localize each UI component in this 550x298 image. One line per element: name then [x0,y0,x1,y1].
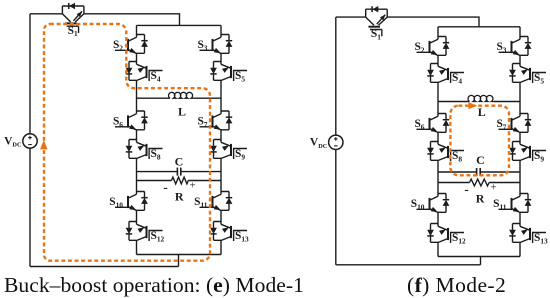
switch S1 (IGBT, horizontal) with antiparallel diode [366,6,388,41]
switch S8 (IGBT, gate right) with antiparallel diode [126,140,163,163]
wire: top bus (left circuit) [137,24,222,26]
wire: right leg lower mid segment (left circuit) [220,162,222,192]
switch S13 (IGBT, gate right) with antiparallel diode [210,222,249,245]
switch S5 (IGBT, gate right) with antiparallel diode [509,64,546,87]
wire: node to inductor (left side) [438,101,470,103]
wire: left leg mid segment upper (left circuit) [136,84,138,111]
svg-text:C: C [476,153,485,167]
wire: S3-S5 link (right circuit) [519,59,521,64]
wire: S3-S5 link (left circuit) [220,57,222,62]
wire: right leg mid segment upper (left circuit) [220,84,222,111]
wire: S2-S4 link (left circuit) [136,57,138,62]
caption: (f) Mode-2 [407,273,506,298]
switch S1 (IGBT, horizontal) with antiparallel diode [62,3,84,38]
wire: right leg mid segment upper (right circuit) [519,86,521,114]
wire: S2-S4 link (right circuit) [437,59,439,64]
switch S12 (IGBT, gate right) with antiparallel diode [427,224,466,247]
svg-text:R: R [476,191,485,205]
caption: Buck-boost operation (e) Mode-1 [4,273,304,298]
switch S9 (IGBT, gate right) with antiparallel diode [210,140,247,163]
svg-text:-: - [464,181,468,196]
wire: bottom bus center drop (left circuit) [178,255,180,267]
switch S3 (IGBT, gate left) with antiparallel diode [197,35,232,58]
wire: capacitor line (right segment) [480,171,520,173]
wire: S7-S9 link (right circuit) [519,136,521,142]
wire: S10-S12 link (left circuit) [136,214,138,222]
capacitor C [477,168,481,176]
wire: resistor line (right segment) [489,182,520,184]
wire: S6-S8 link (right circuit) [437,136,439,142]
wire: top bus stub to right leg (left circuit) [220,25,222,34]
switch S5 (IGBT, gate right) with antiparallel diode [210,62,247,85]
wire: top bus stub to left leg (right circuit) [437,27,439,37]
inductor L [468,95,494,101]
switch S13 (IGBT, gate right) with antiparallel diode [509,224,548,247]
wire: left leg to bottom bus (left circuit) [136,244,138,255]
wire: bottom bus center drop (right circuit) [480,257,482,265]
wire: bottom return wire to DC rail (left circuit) [30,266,179,268]
wire: capacitor line (left segment) [137,171,178,173]
wire: resistor line (right segment) [188,180,221,182]
resistor R (zigzag) [470,179,490,186]
wire: S11-S13 link (right circuit) [519,216,521,224]
wire: right leg to bottom bus (right circuit) [519,246,521,257]
wire: DC rail lower (left circuit) [29,148,31,266]
switch S9 (IGBT, gate right) with antiparallel diode [509,142,546,165]
wire: capacitor line (right segment) [181,171,221,173]
svg-text:L: L [478,105,486,119]
switch S8 (IGBT, gate right) with antiparallel diode [427,142,464,165]
switch S12 (IGBT, gate right) with antiparallel diode [126,222,165,245]
source V_DC (DC voltage source) [329,135,343,149]
wire: S11-S13 link (left circuit) [220,214,222,222]
current path loop Mode-1 (orange dashed, left circuit) [44,24,210,261]
svg-text:+: + [490,182,496,194]
switch S11 (IGBT, gate left) with antiparallel diode [194,192,232,215]
source V_DC (DC voltage source) [23,134,37,148]
capacitor C [177,168,180,176]
wire: DC rail upper (right circuit) [335,17,337,135]
wire: right leg to bottom bus (left circuit) [220,244,222,255]
wire: top wire from DC rail to S1 (right circuit) [336,16,366,18]
current direction arrow (left loop, pointing up) [40,140,48,149]
svg-text:-: - [163,179,167,194]
wire: top bus (right circuit) [438,26,520,28]
inductor L [169,92,194,98]
wire: bottom return wire to DC rail (right circuit) [336,264,481,266]
switch S7 (IGBT, gate left) with antiparallel diode [197,111,232,134]
wire: inductor to node (right side) [194,97,221,99]
wire: inductor to node (right side) [494,101,520,103]
svg-text:C: C [175,155,184,169]
switch S11 (IGBT, gate left) with antiparallel diode [493,194,531,217]
wire: left leg lower mid segment (right circuit) [437,164,439,194]
switch S3 (IGBT, gate left) with antiparallel diode [496,37,531,60]
switch S6 (IGBT, gate left) with antiparallel diode [414,114,449,137]
switch S10 (IGBT, gate left) with antiparallel diode [109,192,148,215]
wire: S1 to top-center drop (right circuit) [387,17,479,27]
wire: resistor line (left segment) [137,180,172,182]
wire: S10-S12 link (right circuit) [437,216,439,224]
wire: top wire from DC rail to S1 (left circuit) [30,13,62,15]
label R with polarity signs [464,181,496,205]
switch S7 (IGBT, gate left) with antiparallel diode [496,114,531,137]
current path loop Mode-2 (orange dashed, right circuit) [450,106,509,176]
wire: bottom bus (left circuit) [137,254,222,256]
wire: bottom bus (right circuit) [438,256,520,258]
wire: left leg mid segment upper (right circuit) [437,86,439,114]
wire: right leg lower mid segment (right circuit) [519,164,521,194]
label R with polarity signs [163,179,195,203]
svg-text:+: + [189,180,195,192]
wire: DC rail lower (right circuit) [335,150,337,265]
wire: top bus stub to right leg (right circuit) [519,27,521,37]
switch S4 (IGBT, gate right) with antiparallel diode [427,64,464,87]
svg-text:L: L [178,104,186,118]
wire: S1 to top-center drop (left circuit) [84,14,180,26]
wire: resistor line (left segment) [438,182,470,184]
wire: left leg to bottom bus (right circuit) [437,246,439,257]
wire: top bus stub to left leg (left circuit) [136,25,138,34]
switch S6 (IGBT, gate left) with antiparallel diode [113,111,148,134]
current direction arrow (right loop, pointing right) [468,102,477,109]
resistor R (zigzag) [172,177,189,184]
wire: node to inductor (left side) [137,97,171,99]
switch S2 (IGBT, gate left) with antiparallel diode [414,37,449,60]
switch S2 (IGBT, gate left) with antiparallel diode [113,35,148,58]
wire: capacitor line (left segment) [438,171,477,173]
wire: S6-S8 link (left circuit) [136,134,138,140]
svg-text:R: R [175,189,184,203]
wire: S7-S9 link (left circuit) [220,134,222,140]
wire: DC rail upper (left circuit) [29,14,31,134]
switch S4 (IGBT, gate right) with antiparallel diode [126,62,163,85]
switch S10 (IGBT, gate left) with antiparallel diode [411,194,450,217]
wire: left leg lower mid segment (left circuit) [136,162,138,192]
